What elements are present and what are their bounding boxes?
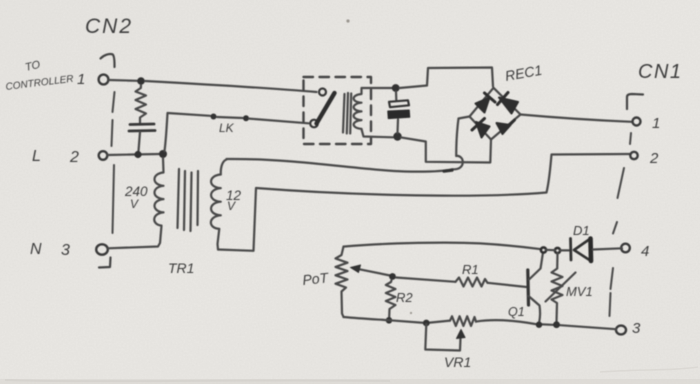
svg-text:V: V: [130, 197, 139, 211]
connector CN2 label: [85, 15, 133, 38]
svg-text:L: L: [32, 148, 41, 165]
connector CN2 pin 3: [96, 244, 108, 254]
label Q1: [508, 305, 525, 319]
label pin number 1 (CN1): [652, 115, 660, 132]
label POT: [302, 269, 331, 288]
junction B (cap bottom on L line): [134, 151, 141, 158]
connector CN2 bracket below pin 3: [99, 258, 111, 268]
diode D1 cathode bar: [569, 239, 572, 261]
link LK junction right: [243, 115, 249, 121]
wire pin2 to primary node: [108, 154, 161, 155]
wire bridge AC (right corner) to CN1 pin 1: [521, 115, 632, 122]
svg-text:Q1: Q1: [508, 305, 525, 319]
wire LK to relay switch bottom contact: [249, 119, 309, 124]
connector CN1 pin 4: [621, 244, 630, 253]
label R1: [462, 262, 479, 277]
link LK wire: [217, 117, 243, 118]
label pin number 3 (CN2): [61, 242, 70, 259]
bridge diode top-left: [476, 93, 496, 113]
bottom rail (POT bottom to CN1 pin 3): [344, 317, 617, 329]
junction A (pin1 node): [137, 77, 145, 85]
relay switch contact bottom: [310, 120, 318, 128]
connector CN1 label: [638, 61, 683, 83]
svg-text:MV1: MV1: [566, 284, 593, 299]
bridge diode bottom-right: [497, 120, 515, 134]
junction ring J (collector on top rail): [541, 247, 546, 252]
svg-text:3: 3: [632, 320, 641, 337]
connector CN2 pin 1: [99, 75, 109, 85]
svg-text:N: N: [30, 241, 42, 258]
junction E (coil/cap bottom): [393, 132, 401, 140]
transistor Q1 collector: [529, 253, 543, 280]
label 240 V: [124, 184, 148, 211]
label pin number 2 (CN1): [649, 150, 659, 167]
connector CN2 bracket above pin 1: [101, 54, 115, 67]
wire pin1 to junction A: [109, 79, 138, 82]
label REC1: [504, 62, 544, 84]
label pin number 4 (CN1): [641, 243, 649, 260]
stray pencil specks: [346, 19, 412, 314]
wire top rail between rings and D1: [546, 249, 569, 252]
label D1: [573, 223, 590, 238]
svg-text:4: 4: [641, 243, 649, 260]
junction H (VR1 left node): [423, 320, 430, 327]
svg-text:CN2: CN2: [85, 15, 133, 38]
label TR1: [168, 260, 194, 276]
junction I (emitter on bottom rail): [536, 322, 542, 328]
svg-text:VR1: VR1: [444, 354, 471, 370]
label VR1: [444, 354, 471, 370]
label 12 V: [226, 188, 242, 213]
svg-text:PoT: PoT: [302, 269, 331, 288]
svg-text:2: 2: [649, 150, 659, 167]
svg-text:2: 2: [69, 149, 79, 166]
wire L branch up to LK: [165, 113, 211, 151]
transistor Q1 emitter: [529, 296, 541, 322]
connector CN1 pin 2: [630, 152, 637, 159]
svg-text:1: 1: [652, 115, 660, 132]
preset VR1 wiper loop and arrow: [425, 324, 465, 351]
wire node D to bridge + (top corner): [400, 68, 494, 89]
connector CN1 bracket above pin 1: [627, 94, 643, 109]
label MV1: [566, 284, 593, 299]
ink blob on sloped wire: [444, 170, 452, 171]
wire node F to R1: [396, 278, 456, 282]
label N: [30, 241, 42, 258]
junction D (coil/cap top): [392, 84, 400, 92]
wire relay coil top to node D: [362, 87, 393, 89]
bridge diode bottom-left: [472, 119, 490, 138]
svg-text:TR1: TR1: [168, 260, 194, 276]
capacitor (snubber, unlabelled): [129, 124, 155, 151]
connector CN2 spine dashes: [112, 92, 115, 233]
svg-text:R1: R1: [462, 262, 479, 277]
svg-text:V: V: [227, 199, 236, 213]
wire POT top to top rail: [345, 243, 542, 250]
transformer TR1 primary winding: [108, 158, 164, 248]
label pin number 2 (CN2): [69, 149, 79, 166]
junction C (L line / primary top): [159, 150, 167, 158]
potentiometer POT body: [336, 247, 348, 318]
transformer TR1 core: [178, 169, 199, 231]
wire bridge - (bottom corner) to node E: [401, 137, 491, 162]
diode D1 triangle: [574, 239, 591, 262]
svg-text:LK: LK: [219, 121, 235, 135]
capacitor C1 (reservoir): [388, 92, 410, 134]
wire R1 to Q1 base: [488, 283, 527, 287]
relay switch blade: [317, 93, 335, 124]
connector CN1 spine dashes: [610, 133, 632, 316]
connector CN2 pin 2: [99, 151, 108, 160]
svg-text:D1: D1: [573, 223, 590, 238]
connector CN1 pin 3: [616, 326, 626, 335]
relay switch contact top: [319, 89, 326, 96]
label pin number 1 (CN2): [77, 71, 85, 88]
bridge rectifier REC1 frame: [470, 88, 521, 140]
label TO CONTROLLER: [5, 59, 74, 93]
label pin number 3 (CN1): [632, 320, 641, 337]
transformer TR1 secondary winding: [211, 160, 227, 250]
bridge diode top-right: [498, 93, 519, 114]
connector CN1 pin 1: [633, 118, 641, 126]
wire bridge AC (left corner) down, hop, then long sloped wire to secondary top: [227, 117, 470, 172]
svg-text:CN1: CN1: [638, 61, 683, 83]
potentiometer POT wiper arrow: [351, 265, 393, 276]
junction G (R2 bottom): [386, 317, 393, 324]
wire junction A to relay switch top contact: [145, 81, 317, 92]
wire relay coil bottom to node E: [362, 131, 393, 137]
relay coil: [354, 89, 362, 132]
resistor R1: [456, 278, 488, 287]
resistor (snubber, unlabelled): [136, 85, 147, 123]
varistor MV1 body: [546, 254, 576, 323]
resistor R2: [386, 280, 396, 317]
relay core bars: [343, 93, 351, 134]
scanner edge strip bottom: [0, 367, 700, 384]
relay dashed enclosure: [304, 77, 372, 144]
svg-text:R2: R2: [396, 290, 413, 305]
link LK junction left: [211, 114, 217, 120]
junction F (wiper / R2 / R1 node): [389, 273, 396, 280]
svg-text:3: 3: [61, 242, 70, 259]
label R2: [396, 290, 413, 305]
preset VR1 body: [450, 316, 476, 326]
svg-text:1: 1: [77, 71, 85, 88]
label LK: [219, 121, 235, 135]
transistor Q1 base bar: [526, 270, 530, 305]
wire D1 to CN1 pin 4: [593, 248, 622, 249]
junction ring K (MV1 top on top rail): [555, 248, 560, 253]
junction L (MV1 bottom on rail): [553, 321, 560, 328]
label L: [32, 148, 41, 165]
wire secondary bottom to CN1 pin 2: [218, 154, 630, 251]
